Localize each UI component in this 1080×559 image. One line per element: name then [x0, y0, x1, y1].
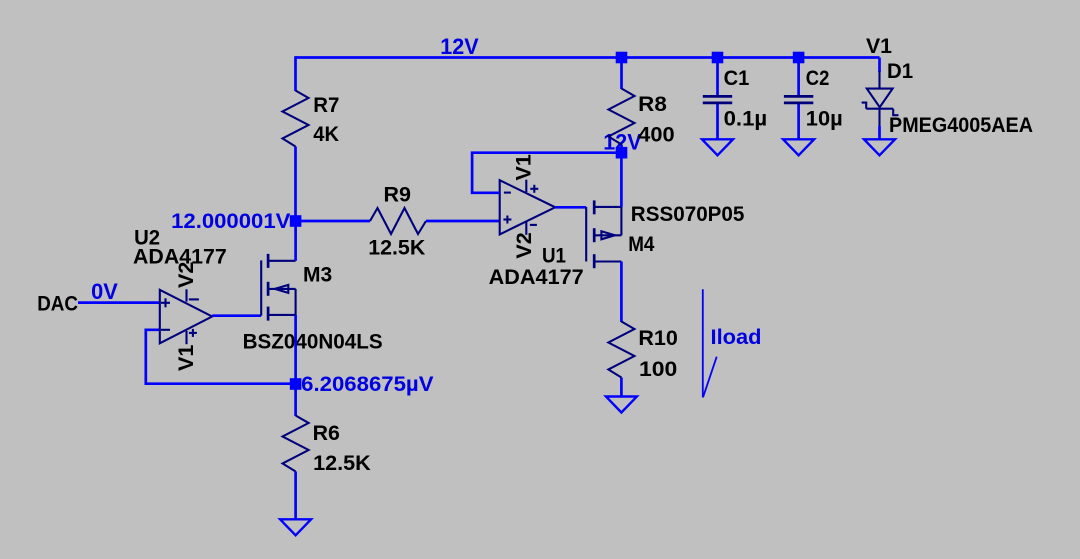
- svg-text:R8: R8: [638, 92, 667, 116]
- node junction at R7 bottom: [290, 215, 302, 227]
- svg-text:PMEG4005AEA: PMEG4005AEA: [889, 113, 1033, 137]
- svg-text:BSZ040N04LS: BSZ040N04LS: [243, 330, 383, 354]
- transistor M3: [261, 254, 295, 321]
- svg-text:V1: V1: [174, 345, 198, 371]
- resistor R9: [370, 208, 426, 234]
- svg-text:6.2068675µV: 6.2068675µV: [301, 372, 434, 396]
- op-amp U1: [500, 180, 556, 235]
- node junction 6.2068675uV: [290, 378, 302, 390]
- junction rail at C2: [793, 52, 805, 64]
- current annotation arrow Iload: [703, 289, 717, 397]
- svg-text:DAC: DAC: [37, 292, 78, 316]
- svg-text:10µ: 10µ: [806, 107, 843, 131]
- wire U2 output to M3 gate: [212, 314, 261, 317]
- wire DAC to U2 +input: [78, 301, 160, 304]
- svg-text:U1: U1: [542, 244, 566, 268]
- junction rail at R8: [616, 52, 628, 64]
- svg-text:100: 100: [639, 357, 677, 381]
- wire U1 feedback to 12V node: [472, 153, 621, 193]
- ground below D1: [864, 139, 895, 155]
- svg-text:0V: 0V: [91, 279, 118, 304]
- svg-text:V1: V1: [511, 154, 535, 180]
- svg-text:12V: 12V: [440, 34, 479, 59]
- svg-text:12.5K: 12.5K: [368, 235, 426, 259]
- svg-text:V2: V2: [512, 232, 536, 258]
- capacitor C2: [784, 58, 813, 140]
- ground below R6: [280, 519, 311, 535]
- wire M3 source down to node: [294, 315, 297, 384]
- svg-text:C2: C2: [806, 66, 830, 90]
- svg-text:D1: D1: [887, 59, 913, 83]
- resistor R10: [608, 322, 634, 397]
- op-amp U2: [160, 289, 212, 344]
- wire M3 drain up to node: [294, 221, 297, 261]
- svg-text:400: 400: [638, 123, 674, 147]
- wire R9 to U1 +input: [426, 220, 500, 223]
- svg-text:R10: R10: [638, 326, 678, 350]
- svg-text:R9: R9: [384, 182, 412, 206]
- svg-text:M4: M4: [628, 232, 654, 256]
- wire U1 output to M4 gate: [555, 206, 586, 209]
- svg-text:12.5K: 12.5K: [313, 451, 371, 475]
- wire M4 drain down to R10: [620, 262, 623, 323]
- svg-text:R7: R7: [313, 93, 339, 117]
- svg-text:ADA4177: ADA4177: [133, 244, 227, 268]
- svg-text:V1: V1: [866, 34, 892, 58]
- ground below R10: [606, 397, 637, 413]
- transistor M4: [586, 200, 621, 268]
- capacitor C1: [703, 58, 732, 140]
- svg-text:Iload: Iload: [711, 325, 762, 349]
- svg-text:M3: M3: [303, 263, 332, 287]
- resistor R6: [283, 384, 309, 519]
- svg-text:0.1µ: 0.1µ: [724, 107, 768, 131]
- ground below C1: [702, 139, 733, 155]
- svg-text:ADA4177: ADA4177: [489, 265, 584, 289]
- diode D1: [862, 58, 899, 140]
- svg-text:12.000001V: 12.000001V: [171, 209, 291, 233]
- wire U2 feedback loop: [146, 330, 296, 384]
- svg-text:4K: 4K: [313, 122, 339, 146]
- svg-text:RSS070P05: RSS070P05: [631, 202, 745, 226]
- ground below C2: [783, 139, 814, 155]
- wire 12V top rail: [296, 56, 880, 59]
- svg-text:C1: C1: [724, 66, 750, 90]
- junction rail at C1: [712, 52, 724, 64]
- resistor R7: [283, 56, 309, 221]
- resistor R8: [609, 58, 635, 153]
- wire node to R9: [296, 220, 370, 223]
- wire M4 source up to 12V node: [620, 153, 623, 207]
- node junction 12V feedback: [616, 147, 628, 159]
- svg-text:R6: R6: [313, 421, 340, 445]
